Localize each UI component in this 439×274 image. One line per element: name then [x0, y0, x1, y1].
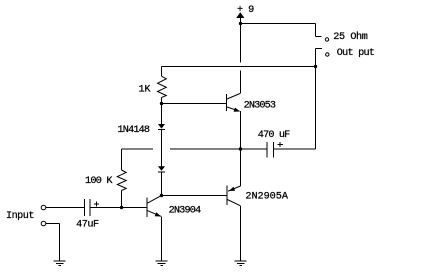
- transistor Q2 emitter diagonal: [147, 211, 161, 217]
- transistor Q1 collector diagonal: [227, 94, 240, 100]
- capacitor C1 47uF label: [76, 220, 99, 231]
- ground Q3 collector: [235, 260, 247, 262]
- wire node to D1 anode: [161, 104, 163, 125]
- resistor R2 zigzag: [117, 170, 126, 191]
- junction dot R1/D1/Q1 base node: [160, 102, 163, 105]
- resistor R2 100 K label: [85, 176, 113, 187]
- wire D1 to D2: [161, 130, 163, 167]
- capacitor C2 470uF label: [258, 130, 290, 141]
- wire input bottom to ground: [46, 223, 60, 225]
- terminal input top: [41, 205, 46, 210]
- wire C2 to output vertical: [274, 148, 316, 150]
- transistor Q3 2N2905A emitter diagonal: [228, 186, 241, 191]
- label 1N4148: [118, 125, 150, 136]
- wire Q1 base: [162, 103, 227, 105]
- diode D1 cathode bar: [158, 129, 165, 131]
- wire C1 to Q2 base: [90, 207, 147, 209]
- transistor Q3 collector diagonal: [227, 200, 240, 206]
- resistor R1 zigzag: [158, 76, 167, 97]
- capacitor C2 right plate: [273, 142, 275, 158]
- transistor Q2 emitter arrow: [155, 212, 161, 216]
- power arrow: [236, 12, 244, 18]
- capacitor C2 plus sign: [278, 144, 284, 146]
- ground input: [54, 260, 66, 262]
- svg-text:470 uF: 470 uF: [258, 130, 290, 141]
- svg-text:2N2905A: 2N2905A: [245, 192, 288, 203]
- junction dot D2/Q2 collector/Q3 base node: [160, 194, 163, 197]
- transistor Q2 2N3904 base bar: [146, 198, 148, 218]
- transistor Q1 emitter diagonal: [227, 107, 240, 111]
- wire input to C1: [46, 207, 85, 209]
- ground Q2 emitter: [156, 260, 168, 262]
- terminal input bottom: [41, 221, 46, 226]
- junction dot supply node: [239, 22, 242, 25]
- wire Q1 emitter to Q3 emitter: [240, 111, 242, 186]
- junction dot output/bootstrap node: [314, 65, 317, 68]
- diode D2 triangle: [158, 166, 165, 171]
- wire Q3 base: [162, 195, 228, 197]
- power +9 label: [237, 5, 254, 16]
- resistor R1 top lead: [161, 67, 163, 77]
- diode D1 triangle: [158, 124, 165, 129]
- label Out put: [337, 48, 375, 59]
- svg-text:25 Ohm: 25 Ohm: [333, 31, 367, 43]
- svg-text:1K: 1K: [139, 85, 152, 96]
- transistor Q3 emitter arrow: [229, 187, 235, 191]
- wire supply rail: [241, 23, 316, 25]
- svg-text:47uF: 47uF: [76, 220, 99, 231]
- label 25 Ohm: [333, 31, 367, 43]
- capacitor C1 left plate: [84, 199, 86, 216]
- transistor Q1 emitter arrow: [234, 108, 240, 112]
- junction dot R2/input node: [120, 206, 123, 209]
- label Input: [6, 211, 34, 222]
- resistor R1 bottom lead: [161, 98, 163, 104]
- svg-text:Input: Input: [6, 211, 34, 222]
- capacitor C1 right plate: [89, 199, 91, 216]
- label 2N3904: [169, 205, 201, 216]
- transistor Q3 base bar: [226, 186, 228, 206]
- wire Q3 collector to ground: [240, 206, 242, 261]
- wire bootstrap node right segment: [170, 148, 267, 150]
- capacitor C2 left plate: [266, 142, 268, 158]
- transistor Q1 2N3053 base bar: [226, 94, 228, 111]
- svg-text:1N4148: 1N4148: [118, 125, 150, 136]
- resistor R2 top lead: [121, 149, 123, 170]
- transistor Q2 collector diagonal: [147, 196, 161, 204]
- wire V+ drop to Q1 collector (below crossover gap): [240, 71, 242, 94]
- svg-text:Out put: Out put: [337, 48, 375, 59]
- svg-text:100 K: 100 K: [85, 176, 113, 187]
- terminal Out put: [326, 53, 329, 56]
- wire 25 Ohm stub vertical: [315, 24, 317, 37]
- wire bootstrap node left segment: [122, 148, 154, 150]
- wire Q2 emitter to ground: [161, 217, 163, 262]
- label 2N3053: [244, 101, 276, 112]
- resistor R2 bottom lead: [121, 191, 123, 208]
- wire output vertical: [315, 49, 317, 150]
- svg-text:2N3904: 2N3904: [169, 205, 201, 216]
- junction dot emitter/bootstrap: [239, 147, 242, 150]
- wire bootstrap horizontal: [162, 66, 316, 68]
- diode D2 cathode bar: [158, 171, 165, 173]
- wire D2 to Q2 collector node: [161, 172, 163, 196]
- label 2N2905A: [245, 192, 288, 203]
- resistor R1 1K label: [139, 85, 152, 96]
- terminal 25 Ohm: [325, 38, 328, 41]
- wire V+ drop to Q1 collector (upper): [240, 17, 242, 63]
- wire Out put stub horizontal: [316, 48, 323, 50]
- capacitor C1 plus sign: [94, 203, 99, 205]
- wire 25 Ohm stub horizontal: [316, 36, 322, 38]
- svg-text:2N3053: 2N3053: [244, 101, 276, 112]
